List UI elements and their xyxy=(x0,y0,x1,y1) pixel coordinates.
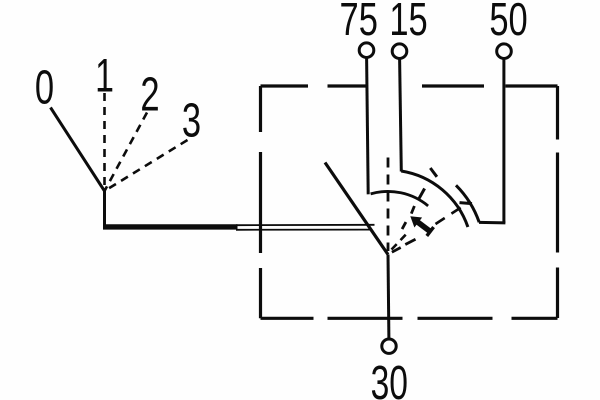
contact arc outer (terminal 15 track) xyxy=(401,171,468,227)
terminal 15 circle xyxy=(392,44,407,59)
rotor dashed radial dash at -61deg near pivot xyxy=(402,222,406,229)
terminal 50 circle xyxy=(497,44,512,59)
svg-text:2: 2 xyxy=(140,67,159,121)
svg-text:0: 0 xyxy=(35,60,54,114)
rotor dashed radial dash at -61deg xyxy=(411,206,414,214)
shaft link lower thin line xyxy=(236,229,371,231)
terminal 30 circle xyxy=(382,339,396,353)
selector position line 0 (solid) xyxy=(51,108,105,192)
switch housing dashed box top edge xyxy=(261,84,558,87)
rotation arrow head xyxy=(410,216,422,227)
svg-text:75: 75 xyxy=(340,0,378,45)
rotor dashed radial to arrow (inner) xyxy=(392,232,409,249)
svg-text:3: 3 xyxy=(182,93,201,147)
actuating shaft thick bar xyxy=(103,224,238,229)
tick outside outer arc xyxy=(430,168,437,177)
selector position line 1 (dashed) xyxy=(103,93,106,191)
terminal 75 circle xyxy=(359,43,374,58)
shaft link upper thin line xyxy=(236,224,375,226)
switch housing dashed box right edge xyxy=(556,86,559,318)
contact arc inner (terminal 75 track) xyxy=(371,191,429,205)
wire terminal 50 horizontal to arc xyxy=(479,221,505,225)
wire rotor pivot to terminal 30 xyxy=(387,255,391,340)
tick crossing inner arc xyxy=(418,189,424,200)
selector position line 2 (dashed) xyxy=(105,113,148,192)
wire terminal 50 vertical xyxy=(502,59,505,223)
rotor dashed radial position 1 (vertical) xyxy=(387,158,390,252)
tick between outer and 50 arcs xyxy=(460,203,473,204)
rotor dashed radial whisker at -30deg near pivot xyxy=(392,248,401,253)
wire terminal 75 to contact xyxy=(367,58,369,195)
rotation arrow shaft xyxy=(417,222,430,232)
svg-text:15: 15 xyxy=(389,0,427,45)
wire terminal 15 to arc xyxy=(400,59,402,172)
rotation arrow tail bar xyxy=(427,227,434,236)
contact arc 50 track xyxy=(456,185,479,222)
switch housing dashed box left edge xyxy=(259,86,262,318)
rotor contact blade (solid) xyxy=(325,163,388,255)
switch housing dashed box bottom edge xyxy=(261,317,558,320)
rotor dashed radial beyond arrow (outer) xyxy=(436,202,470,224)
svg-text:30: 30 xyxy=(371,355,408,400)
selector position line 3 (dashed) xyxy=(105,140,188,191)
rotor dashed radial dash at -32deg xyxy=(405,239,415,244)
selector pivot drop wire xyxy=(103,191,106,228)
svg-text:50: 50 xyxy=(489,0,527,45)
